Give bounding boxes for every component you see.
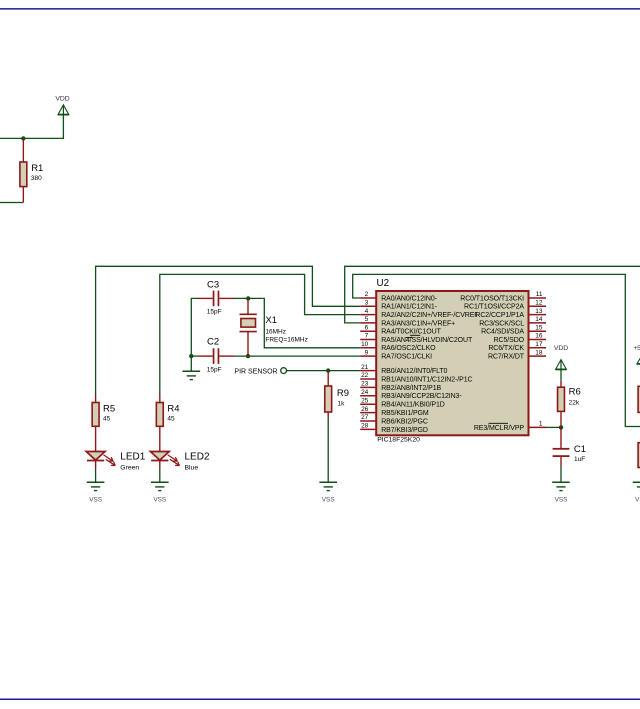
svg-text:C1: C1 xyxy=(574,444,586,455)
svg-text:3: 3 xyxy=(365,300,369,307)
svg-text:RC2/CCP1/P1A: RC2/CCP1/P1A xyxy=(475,312,524,319)
svg-text:RB3/AN9/CCP2B/C12IN3-: RB3/AN9/CCP2B/C12IN3- xyxy=(381,393,462,400)
svg-text:VSS: VSS xyxy=(322,496,335,503)
svg-text:+5V: +5V xyxy=(633,345,640,352)
svg-text:VSS: VSS xyxy=(635,496,640,503)
svg-text:R6: R6 xyxy=(569,387,581,398)
svg-text:28: 28 xyxy=(361,423,369,430)
svg-text:RB4/AN11/KBI0/P1D: RB4/AN11/KBI0/P1D xyxy=(381,402,445,409)
svg-text:15: 15 xyxy=(535,324,543,331)
svg-text:RB7/KBI3/PGD: RB7/KBI3/PGD xyxy=(381,427,428,434)
svg-text:VSS: VSS xyxy=(89,496,102,503)
svg-text:14: 14 xyxy=(535,316,543,323)
svg-text:2: 2 xyxy=(365,291,369,298)
svg-text:RB2/AN8/INT2/P1B: RB2/AN8/INT2/P1B xyxy=(381,385,441,392)
svg-text:RA1/AN1/C12IN1-: RA1/AN1/C12IN1- xyxy=(381,304,437,311)
svg-text:11: 11 xyxy=(536,291,543,298)
svg-text:4: 4 xyxy=(365,308,369,315)
svg-text:15pF: 15pF xyxy=(207,367,222,374)
svg-text:RB0/AN12/INT0/FLT0: RB0/AN12/INT0/FLT0 xyxy=(381,368,447,375)
svg-text:C2: C2 xyxy=(207,336,219,347)
svg-text:7: 7 xyxy=(365,333,369,340)
svg-text:RA3/AN3/C1IN+/VREF+: RA3/AN3/C1IN+/VREF+ xyxy=(381,320,455,327)
svg-text:RA2/AN2/C2IN+/VREF-/CVREF: RA2/AN2/C2IN+/VREF-/CVREF xyxy=(381,312,478,319)
svg-text:R4: R4 xyxy=(167,404,179,415)
svg-text:PIC18F25K20: PIC18F25K20 xyxy=(377,436,420,443)
svg-text:RA5/AN4/SS/HLVDIN/C2OUT: RA5/AN4/SS/HLVDIN/C2OUT xyxy=(381,337,473,344)
svg-text:RB6/KBI2/PGC: RB6/KBI2/PGC xyxy=(381,418,428,425)
svg-text:RB5/KBI1/PGM: RB5/KBI1/PGM xyxy=(381,410,429,417)
svg-text:RA4/T0CKI/C1OUT: RA4/T0CKI/C1OUT xyxy=(381,329,441,336)
svg-text:25: 25 xyxy=(361,397,369,404)
svg-text:RA0/AN0/C12IN0-: RA0/AN0/C12IN0- xyxy=(381,295,437,302)
svg-text:15pF: 15pF xyxy=(207,309,222,316)
svg-text:Green: Green xyxy=(120,465,139,472)
svg-text:RA6/OSC2/CLKO: RA6/OSC2/CLKO xyxy=(381,345,436,352)
svg-text:R1: R1 xyxy=(31,163,43,174)
svg-text:X1: X1 xyxy=(265,315,277,326)
svg-text:1: 1 xyxy=(539,421,543,428)
svg-text:21: 21 xyxy=(361,364,369,371)
svg-text:1uF: 1uF xyxy=(574,456,585,463)
svg-text:1k: 1k xyxy=(338,401,346,408)
svg-text:U2: U2 xyxy=(377,278,390,289)
svg-text:26: 26 xyxy=(361,406,369,413)
svg-text:RC4/SDI/SDA: RC4/SDI/SDA xyxy=(481,329,524,336)
svg-text:Blue: Blue xyxy=(185,465,199,472)
svg-text:22k: 22k xyxy=(569,399,580,406)
svg-text:R5: R5 xyxy=(103,404,115,415)
svg-text:RC3/SCK/SCL: RC3/SCK/SCL xyxy=(479,320,524,327)
svg-text:23: 23 xyxy=(361,381,369,388)
svg-text:RC6/TX/CK: RC6/TX/CK xyxy=(488,345,524,352)
svg-text:FREQ=16MHz: FREQ=16MHz xyxy=(265,336,307,343)
svg-text:10: 10 xyxy=(361,341,369,348)
svg-text:16MHz: 16MHz xyxy=(265,328,286,335)
svg-text:6: 6 xyxy=(365,324,369,331)
svg-text:5: 5 xyxy=(365,316,369,323)
svg-text:13: 13 xyxy=(535,308,543,315)
svg-text:27: 27 xyxy=(361,414,369,421)
svg-text:RC0/T1OSO/T13CKI: RC0/T1OSO/T13CKI xyxy=(460,295,524,302)
svg-text:RC5/SDO: RC5/SDO xyxy=(494,337,525,344)
svg-text:22: 22 xyxy=(361,372,369,379)
svg-text:LED1: LED1 xyxy=(120,451,145,462)
svg-text:VDD: VDD xyxy=(55,96,69,103)
svg-text:RA7/OSC1/CLKI: RA7/OSC1/CLKI xyxy=(381,354,432,361)
svg-text:RC7/RX/DT: RC7/RX/DT xyxy=(488,354,525,361)
svg-text:RB1/AN10/INT1/C12IN2-/P1C: RB1/AN10/INT1/C12IN2-/P1C xyxy=(381,376,472,383)
svg-text:9: 9 xyxy=(365,349,369,356)
svg-text:16: 16 xyxy=(535,333,543,340)
svg-text:R9: R9 xyxy=(337,388,349,399)
svg-text:VSS: VSS xyxy=(153,496,166,503)
svg-text:VSS: VSS xyxy=(555,496,568,503)
svg-text:C3: C3 xyxy=(207,279,219,290)
svg-text:45: 45 xyxy=(103,415,111,422)
svg-text:45: 45 xyxy=(167,415,175,422)
svg-text:VDD: VDD xyxy=(554,345,568,352)
svg-text:380: 380 xyxy=(31,175,42,182)
svg-text:17: 17 xyxy=(535,341,543,348)
svg-text:12: 12 xyxy=(535,300,543,307)
svg-text:PIR SENSOR: PIR SENSOR xyxy=(234,369,277,376)
svg-text:24: 24 xyxy=(361,389,369,396)
svg-text:LED2: LED2 xyxy=(185,451,210,462)
svg-text:18: 18 xyxy=(535,349,543,356)
svg-text:RE3/MCLR/VPP: RE3/MCLR/VPP xyxy=(474,425,525,432)
svg-text:RC1/T1OSI/CCP2A: RC1/T1OSI/CCP2A xyxy=(464,304,524,311)
